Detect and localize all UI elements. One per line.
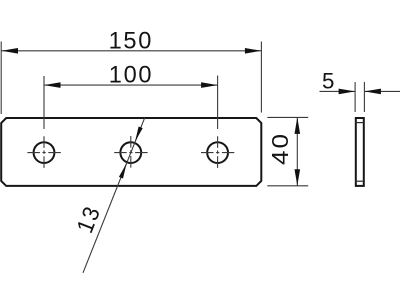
centerline hole 1 horizontal (27, 152, 61, 154)
dimension 100: right extension line (through hole 3) (217, 76, 219, 130)
dimension 5: right extension line (363, 82, 365, 112)
hole 3 (right, dia 13) (207, 142, 228, 163)
dimension 5: left tail line (320, 90, 356, 92)
centerline hole 3 horizontal (201, 152, 234, 154)
side view upper chamfer edge line (355, 122, 365, 124)
dimension 40: bottom extension line (267, 185, 308, 187)
dimension 150: right extension line (260, 42, 262, 113)
dimension 5: right tail line (364, 90, 400, 92)
hole 1 (left, dia 13) (34, 142, 55, 163)
dimension 5: left arrowhead (pointing right) (339, 89, 356, 95)
dimension 100: right arrowhead (201, 82, 218, 88)
svg-text:40: 40 (268, 132, 293, 165)
dimension 150: dimension line (2, 50, 262, 52)
svg-text:150: 150 (109, 29, 153, 55)
dimension 40: top extension line (267, 116, 308, 118)
centerline hole 1 vertical (43, 136, 45, 168)
dimension 100: left arrowhead (44, 82, 61, 88)
dimension 40: dimension line (296, 117, 298, 185)
dimension 100: left extension line (through hole 1) (43, 76, 45, 129)
dimension 40: top arrowhead (295, 117, 301, 133)
dimension 150: left arrowhead (2, 48, 19, 54)
side view lower chamfer edge line (355, 180, 365, 182)
dimension 5: left extension line (354, 82, 356, 112)
centerline hole 2 horizontal (114, 152, 148, 154)
centerline hole 3 vertical (217, 136, 219, 168)
hole 2 (middle, dia 13) (120, 142, 141, 163)
dimension 100: dimension line (44, 84, 218, 86)
dimension 40: bottom arrowhead (295, 169, 301, 186)
side view plate outline (thickness 5) (356, 118, 364, 186)
svg-text:5: 5 (322, 68, 334, 93)
dimension 13: leader line through middle hole (83, 118, 145, 273)
svg-text:100: 100 (109, 62, 153, 88)
dimension 150: right arrowhead (245, 48, 262, 54)
plate outline (front view, 150x40, chamfered corners) (1, 118, 261, 186)
dimension 5: right arrowhead (pointing left) (364, 89, 381, 95)
dimension 150: left extension line (0, 42, 2, 115)
centerline hole 2 vertical (130, 136, 132, 168)
dimension 13: lower arrowhead at hole edge (119, 163, 127, 178)
dimension 13: upper arrowhead at hole edge (135, 126, 143, 141)
